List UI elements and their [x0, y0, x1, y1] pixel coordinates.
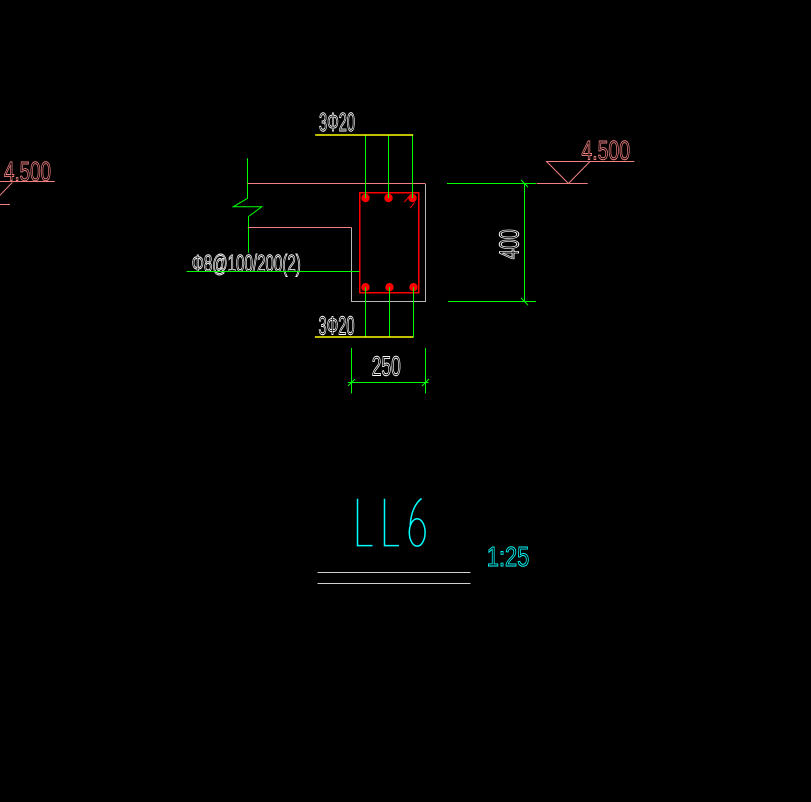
dim 400 dimension line: [524, 184, 526, 302]
dim 250 dimension line: [348, 382, 429, 384]
dim 400 top extension line: [447, 183, 536, 185]
stirrup hook slash 2: [410, 202, 415, 208]
stirrup hook slash 1: [404, 197, 409, 203]
top label underline: [315, 134, 413, 136]
top leader line 1: [365, 135, 367, 198]
title LL6 digit 6: [409, 519, 425, 546]
top leader line 2: [388, 135, 390, 198]
bottom label underline: [315, 336, 413, 338]
top leader line 3: [412, 135, 414, 198]
stirrup leader line: [187, 271, 360, 273]
title LL6 digit 6 hook: [410, 499, 421, 526]
rebar top-left: [361, 194, 369, 202]
elevation triangle edge (left, clipped): [0, 183, 12, 206]
slab top line: [248, 183, 426, 185]
dim 400 tick bottom: [521, 298, 528, 305]
dim 250 tick left: [348, 379, 355, 386]
dim 250 left extension line: [351, 348, 353, 393]
svg-text:Φ8@100/200(2): Φ8@100/200(2): [192, 251, 301, 278]
dim 250 tick right: [422, 379, 429, 386]
svg-text:250: 250: [372, 351, 401, 382]
bottom leader line 3: [413, 287, 415, 337]
elevation underline (right): [547, 161, 635, 163]
stirrup: [360, 193, 419, 293]
title underline upper: [318, 572, 471, 574]
title underline lower: [318, 583, 471, 585]
elevation triangle (right): [547, 162, 590, 184]
rebar top-middle: [384, 194, 392, 202]
dim 400 tick top: [521, 180, 528, 187]
elevation datum line (right): [537, 183, 588, 185]
rebar bottom-left: [361, 283, 369, 291]
svg-text:3Φ20: 3Φ20: [319, 109, 355, 137]
bottom leader line 2: [389, 287, 391, 337]
dim 250 right extension line: [425, 348, 427, 393]
break line: [233, 158, 261, 252]
slab soffit line: [248, 227, 352, 229]
rebar top-right: [408, 194, 416, 202]
rebar bottom-middle: [385, 283, 393, 291]
title LL6 letter L1: [358, 499, 373, 546]
dim 400 bottom extension line: [448, 301, 536, 303]
rebar bottom-right: [409, 283, 417, 291]
svg-text:1:25: 1:25: [487, 541, 530, 572]
elevation underline (left): [0, 181, 55, 183]
title LL6 letter L2: [385, 499, 399, 546]
svg-text:3Φ20: 3Φ20: [319, 312, 355, 340]
elevation datum line (left): [0, 204, 10, 206]
bottom leader line 1: [365, 287, 367, 337]
beam section outline: [352, 184, 426, 302]
svg-text:400: 400: [494, 229, 525, 259]
